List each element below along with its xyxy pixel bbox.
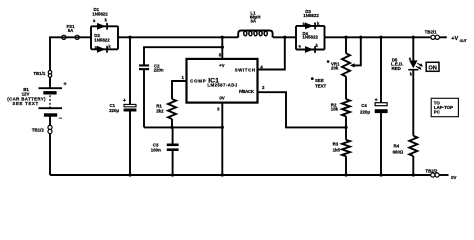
- svg-text:220n: 220n: [154, 68, 164, 73]
- svg-text:F/BACK: F/BACK: [239, 89, 255, 94]
- svg-text:C4: C4: [361, 103, 367, 108]
- svg-text:1N5822: 1N5822: [303, 13, 319, 18]
- svg-text:TB1/1: TB1/1: [33, 71, 46, 76]
- svg-text:220µ: 220µ: [109, 108, 119, 113]
- svg-text:R3: R3: [333, 141, 339, 146]
- svg-text:680Ω: 680Ω: [393, 149, 404, 154]
- svg-text:100n: 100n: [151, 147, 161, 152]
- svg-text:1N5822: 1N5822: [94, 37, 110, 42]
- svg-text:TEXT: TEXT: [315, 83, 327, 88]
- svg-text:2k2: 2k2: [156, 108, 164, 113]
- svg-text:PC: PC: [434, 109, 441, 114]
- svg-text:+V: +V: [451, 36, 458, 42]
- svg-text:20k: 20k: [331, 66, 339, 71]
- svg-text:ON: ON: [428, 65, 437, 71]
- svg-text:0V: 0V: [451, 175, 456, 180]
- svg-text:5A: 5A: [68, 28, 74, 33]
- svg-text:3A: 3A: [250, 18, 256, 23]
- svg-text:OUT: OUT: [460, 39, 468, 43]
- svg-text:TB2/2: TB2/2: [425, 168, 438, 173]
- svg-text:SWITCH: SWITCH: [235, 67, 255, 72]
- svg-text:1k5: 1k5: [333, 147, 341, 152]
- svg-text:1N5822: 1N5822: [92, 11, 108, 16]
- svg-text:0V: 0V: [219, 95, 224, 100]
- svg-text:220µ: 220µ: [360, 110, 370, 115]
- svg-text:10k: 10k: [331, 107, 339, 112]
- svg-text:TB1/2: TB1/2: [32, 128, 45, 133]
- svg-text:LM2587-ADJ: LM2587-ADJ: [207, 83, 237, 88]
- svg-text:+V: +V: [219, 63, 225, 68]
- svg-text:RED: RED: [392, 66, 401, 71]
- svg-text:R4: R4: [394, 144, 400, 149]
- svg-text:TB2/1: TB2/1: [425, 29, 438, 34]
- svg-text:COMP: COMP: [190, 79, 206, 84]
- svg-text:1N5822: 1N5822: [302, 35, 318, 40]
- svg-text:SEE TEXT: SEE TEXT: [12, 101, 38, 106]
